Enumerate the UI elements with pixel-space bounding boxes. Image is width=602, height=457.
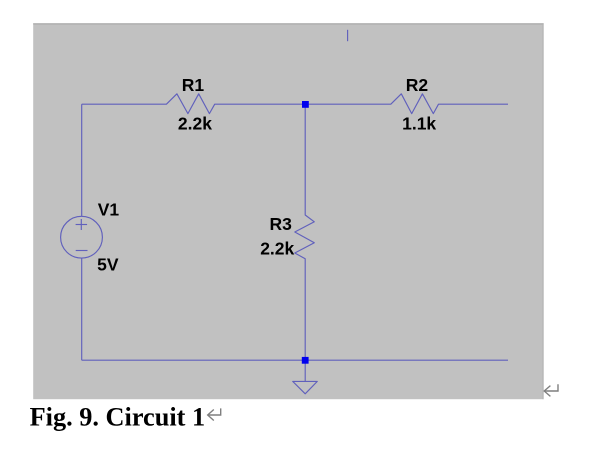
- svg-text:R3: R3: [270, 214, 293, 234]
- svg-text:Fig. 9. Circuit 1: Fig. 9. Circuit 1: [30, 402, 206, 431]
- svg-text:2.2k: 2.2k: [260, 238, 294, 258]
- svg-text:R1: R1: [182, 75, 205, 95]
- svg-text:R2: R2: [406, 75, 429, 95]
- svg-text:1.1k: 1.1k: [402, 114, 436, 134]
- svg-text:2.2k: 2.2k: [178, 114, 212, 134]
- svg-text:5V: 5V: [97, 254, 119, 274]
- svg-text:V1: V1: [98, 199, 120, 219]
